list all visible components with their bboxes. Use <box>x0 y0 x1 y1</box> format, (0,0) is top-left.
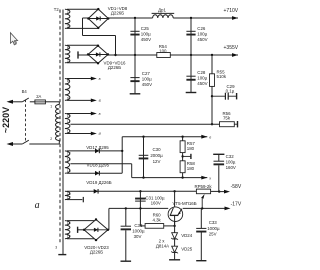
svg-text:е: е <box>209 135 211 139</box>
svg-text:3: 3 <box>67 24 69 28</box>
svg-text:100µ: 100µ <box>197 32 207 37</box>
svg-text:С26: С26 <box>197 26 206 31</box>
svg-text:4.3k: 4.3k <box>152 217 161 222</box>
svg-text:д: д <box>99 132 101 136</box>
svg-text:С33: С33 <box>209 220 218 225</box>
svg-text:3: 3 <box>55 246 57 250</box>
svg-text:11: 11 <box>67 120 71 124</box>
svg-text:С30: С30 <box>152 147 161 152</box>
svg-text:~220V: ~220V <box>1 107 11 133</box>
svg-text:100: 100 <box>159 49 167 54</box>
svg-text:С32: С32 <box>226 154 235 159</box>
svg-text:160V: 160V <box>151 201 161 206</box>
svg-text:1: 1 <box>50 105 52 109</box>
svg-text:19: 19 <box>67 235 71 239</box>
svg-text:В4: В4 <box>22 89 28 94</box>
svg-text:-58V: -58V <box>231 184 242 190</box>
svg-text:VD17 Д295: VD17 Д295 <box>86 145 109 150</box>
svg-text:Т2: Т2 <box>54 7 60 12</box>
svg-text:1000µ: 1000µ <box>132 228 145 233</box>
svg-text:а: а <box>35 200 40 211</box>
svg-text:-17V: -17V <box>231 202 242 208</box>
svg-text:450V: 450V <box>142 82 152 87</box>
svg-text:Д814А: Д814А <box>156 244 169 249</box>
svg-text:+710V: +710V <box>224 8 239 14</box>
svg-text:С28: С28 <box>197 70 206 75</box>
svg-text:Д226Б: Д226Б <box>108 65 121 70</box>
svg-text:180: 180 <box>187 166 195 171</box>
svg-text:450V: 450V <box>197 37 207 42</box>
svg-text:75k: 75k <box>223 116 231 121</box>
svg-text:510k: 510k <box>217 74 227 79</box>
svg-text:+355V: +355V <box>224 45 239 51</box>
svg-text:VT5-МП16Б: VT5-МП16Б <box>173 201 197 206</box>
svg-text:в: в <box>99 112 101 116</box>
svg-text:6: 6 <box>67 46 69 50</box>
svg-text:9: 9 <box>67 96 69 100</box>
svg-text:18: 18 <box>67 221 71 225</box>
svg-text:в: в <box>99 77 101 81</box>
svg-text:1000µ: 1000µ <box>207 226 220 231</box>
svg-text:С27: С27 <box>142 71 151 76</box>
svg-text:RP59-2k: RP59-2k <box>194 184 212 189</box>
svg-text:2000µ: 2000µ <box>150 153 163 158</box>
svg-text:100µ: 100µ <box>226 160 236 165</box>
svg-text:100µ: 100µ <box>197 76 207 81</box>
svg-text:8: 8 <box>67 79 69 83</box>
svg-text:12: 12 <box>67 130 71 134</box>
svg-text:VD25: VD25 <box>181 246 193 251</box>
svg-text:Д226Б: Д226Б <box>111 10 124 15</box>
svg-text:25V: 25V <box>209 231 217 236</box>
svg-text:100µ: 100µ <box>141 32 151 37</box>
svg-text:30V: 30V <box>134 234 142 239</box>
svg-text:160V: 160V <box>226 165 236 170</box>
svg-text:С25: С25 <box>141 26 150 31</box>
svg-text:450V: 450V <box>197 81 207 86</box>
svg-text:15: 15 <box>67 169 71 173</box>
svg-text:7: 7 <box>67 59 69 63</box>
svg-text:2А: 2А <box>36 94 41 99</box>
svg-text:х: х <box>208 176 211 180</box>
svg-text:14: 14 <box>67 157 71 161</box>
svg-text:Д226Б: Д226Б <box>90 249 103 254</box>
svg-text:12V: 12V <box>153 159 161 164</box>
svg-text:180: 180 <box>187 146 195 151</box>
svg-text:VD19 Д226Б: VD19 Д226Б <box>86 180 112 185</box>
svg-text:VD18 Д295: VD18 Д295 <box>87 162 110 167</box>
svg-text:VD24: VD24 <box>181 233 193 238</box>
svg-text:17: 17 <box>67 196 71 200</box>
svg-text:С33: С33 <box>134 223 143 228</box>
svg-text:0.1µ: 0.1µ <box>226 89 235 94</box>
svg-text:450V: 450V <box>141 37 151 42</box>
svg-text:Др1: Др1 <box>158 7 166 12</box>
svg-text:2: 2 <box>67 10 69 14</box>
svg-text:2: 2 <box>50 137 52 141</box>
svg-text:10: 10 <box>67 114 71 118</box>
svg-text:13: 13 <box>67 151 71 155</box>
svg-text:100µ: 100µ <box>142 77 152 82</box>
